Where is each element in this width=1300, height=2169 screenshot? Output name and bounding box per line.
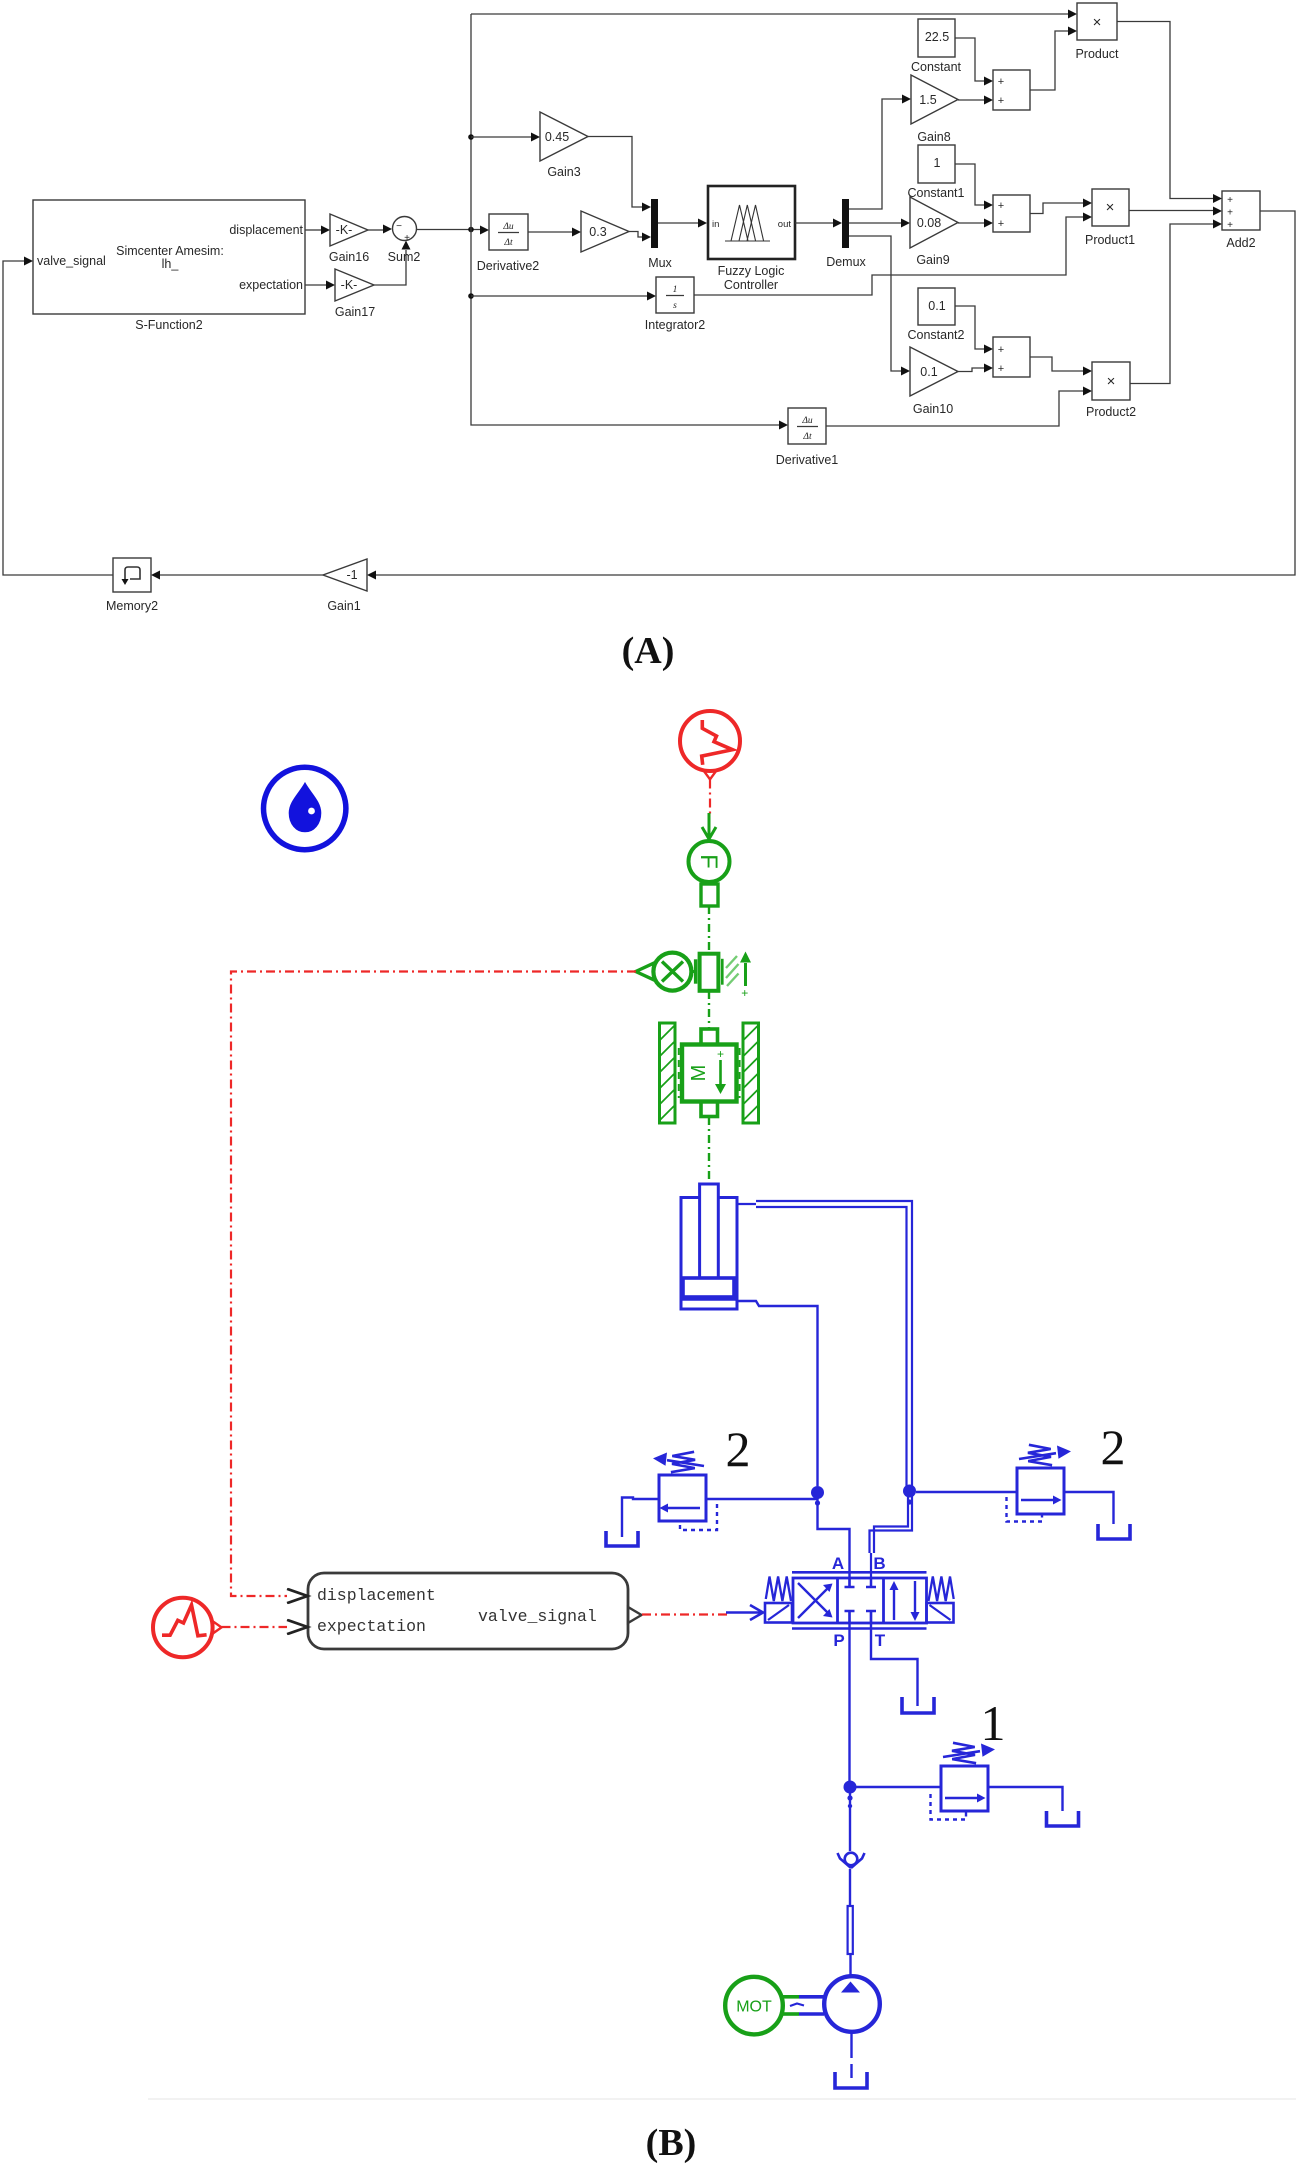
pipe left relief valve to junction A bbox=[706, 1498, 818, 1500]
wire Gain1 to Memory2 bbox=[151, 571, 323, 580]
junction node B side bbox=[903, 1485, 916, 1505]
relief valve 2 left bbox=[622, 1452, 717, 1537]
svg-text:+: + bbox=[1227, 220, 1233, 231]
svg-text:A: A bbox=[832, 1554, 844, 1573]
gain Gain9 bbox=[910, 197, 958, 267]
svg-text:-K-: -K- bbox=[336, 223, 353, 237]
svg-text:Simcenter Amesim:: Simcenter Amesim: bbox=[116, 244, 224, 258]
svg-text:+: + bbox=[998, 95, 1004, 107]
hydraulic pipe element bbox=[848, 1906, 853, 1954]
svg-text:Δu: Δu bbox=[801, 416, 813, 426]
wire Gain17 to Sum2 bbox=[374, 241, 411, 286]
svg-text:valve_signal: valve_signal bbox=[37, 254, 106, 268]
faint separator line bbox=[148, 2098, 1296, 2100]
svg-text:(A): (A) bbox=[622, 630, 675, 672]
blue arrow into solenoid bbox=[726, 1605, 763, 1620]
green mech line sensor to mass bbox=[708, 991, 710, 1028]
wire Gain10 to sum bbox=[958, 364, 993, 373]
svg-text:Product: Product bbox=[1075, 47, 1119, 61]
pipe junction to check valve bbox=[849, 1787, 851, 1851]
oil drop icon bbox=[264, 767, 346, 849]
right solenoid bbox=[927, 1603, 954, 1623]
svg-text:-1: -1 bbox=[346, 568, 357, 582]
wire Gain3 to Mux input1 bbox=[588, 137, 651, 212]
svg-text:0.45: 0.45 bbox=[545, 130, 569, 144]
wire trunk bottom to Derivative1 bbox=[471, 421, 788, 430]
svg-text:Demux: Demux bbox=[826, 255, 866, 269]
svg-text:+: + bbox=[1227, 208, 1233, 219]
svg-text:Δt: Δt bbox=[802, 432, 812, 442]
memory Memory2 bbox=[106, 558, 158, 613]
green mech line force to sensor bbox=[708, 906, 710, 953]
svg-text:Sum2: Sum2 bbox=[388, 250, 421, 264]
red line lower source to expectation input bbox=[222, 1626, 288, 1628]
svg-text:Constant1: Constant1 bbox=[908, 186, 965, 200]
svg-text:-K-: -K- bbox=[341, 278, 358, 292]
mass with friction walls bbox=[660, 1023, 759, 1123]
pipe T port to tank bbox=[871, 1611, 918, 1706]
gain Gain1 bbox=[323, 559, 367, 613]
svg-text:valve_signal: valve_signal bbox=[478, 1607, 597, 1626]
svg-text:+: + bbox=[741, 986, 748, 1000]
svg-text:Gain3: Gain3 bbox=[547, 165, 580, 179]
left cell crossed arrows bbox=[798, 1588, 828, 1618]
svg-text:1: 1 bbox=[981, 1695, 1006, 1751]
pipe junction B to valve port B (double line) bbox=[870, 1496, 913, 1587]
wire Constant1 to sum bbox=[955, 164, 993, 210]
svg-text:Gain1: Gain1 bbox=[327, 599, 360, 613]
pipe junction A to valve port A bbox=[818, 1497, 850, 1587]
svg-text:Derivative2: Derivative2 bbox=[477, 259, 540, 273]
gain Gain8 bbox=[911, 75, 958, 144]
sum Sum2 bbox=[388, 217, 421, 265]
wire trunk to Gain3 bbox=[471, 133, 540, 142]
svg-text:F: F bbox=[695, 854, 722, 869]
svg-text:+: + bbox=[998, 76, 1004, 88]
left solenoid bbox=[765, 1603, 792, 1623]
svg-text:s: s bbox=[673, 301, 677, 311]
svg-text:Δu: Δu bbox=[502, 222, 514, 232]
pipe junction to relief valve 1 bbox=[850, 1786, 941, 1788]
pipe junction B to relief valve 2 right bbox=[916, 1491, 1017, 1493]
check valve bbox=[838, 1853, 865, 1868]
wire trunk to Integrator2 bbox=[471, 292, 656, 301]
junction node A side bbox=[811, 1486, 824, 1506]
svg-text:×: × bbox=[1106, 199, 1115, 216]
block Fuzzy Logic Controller bbox=[708, 186, 795, 292]
S-Function2 block bbox=[33, 200, 305, 332]
wire Demux out2 to Gain9 bbox=[849, 219, 910, 228]
gain 0.3 bbox=[581, 211, 629, 252]
wire Derivative2 to 0.3 gain bbox=[528, 228, 581, 237]
wire Gain9 to sum bbox=[958, 219, 993, 228]
wire sum to Product2 input1 bbox=[1030, 357, 1092, 376]
svg-text:22.5: 22.5 bbox=[925, 30, 949, 44]
relief valve 1 bbox=[931, 1743, 1063, 1820]
relief valve 2 right bbox=[1007, 1445, 1114, 1524]
shaft motor to pump bbox=[783, 1997, 824, 2014]
wire sum to Product1 input1 bbox=[1030, 199, 1092, 214]
wire Gain8 to sum bbox=[958, 96, 993, 105]
svg-text:displacement: displacement bbox=[229, 223, 303, 237]
svg-text:out: out bbox=[778, 219, 792, 230]
junction node pump line bbox=[844, 1781, 857, 1809]
sum block middle bbox=[993, 195, 1030, 232]
svg-text:0.1: 0.1 bbox=[920, 365, 937, 379]
svg-text:+: + bbox=[998, 218, 1004, 230]
svg-text:B: B bbox=[873, 1554, 885, 1573]
svg-text:Memory2: Memory2 bbox=[106, 599, 158, 613]
svg-text:S-Function2: S-Function2 bbox=[135, 318, 202, 332]
wire Product2 to Add2 input3 bbox=[1130, 220, 1222, 384]
svg-text:1.5: 1.5 bbox=[919, 93, 936, 107]
red control line source to force bbox=[709, 780, 711, 815]
svg-text:expectation: expectation bbox=[239, 278, 303, 292]
signal source circle bottom left bbox=[153, 1598, 222, 1658]
demux Demux bbox=[826, 199, 866, 269]
svg-text:2: 2 bbox=[726, 1421, 751, 1477]
wire Integrator2 to Product1 input2 bbox=[694, 213, 1092, 296]
green signal arrow into force source bbox=[702, 813, 716, 839]
svg-text:(B): (B) bbox=[646, 2122, 697, 2164]
pipe check valve to hydraulic pipe bbox=[849, 1869, 851, 1906]
add Add2 bbox=[1222, 191, 1260, 250]
wire Demux out1 to Gain8 bbox=[849, 95, 911, 210]
svg-text:Controller: Controller bbox=[724, 278, 778, 292]
wire trunk vertical bbox=[468, 14, 474, 424]
svg-text:1: 1 bbox=[934, 156, 941, 170]
svg-text:Integrator2: Integrator2 bbox=[645, 318, 706, 332]
wire Sum2 output to trunk and Derivative2 bbox=[417, 226, 489, 235]
derivative Derivative1 bbox=[776, 408, 839, 467]
gain Gain10 bbox=[910, 347, 958, 416]
svg-text:T: T bbox=[875, 1631, 886, 1650]
motor MOT bbox=[725, 1977, 783, 2035]
signal source circle top bbox=[680, 711, 740, 779]
constant Constant 22.5 bbox=[911, 19, 962, 74]
svg-text:+: + bbox=[717, 1047, 724, 1061]
gain Gain3 bbox=[540, 112, 588, 179]
svg-text:M: M bbox=[688, 1065, 710, 1082]
svg-text:+: + bbox=[404, 233, 410, 244]
svg-text:lh_: lh_ bbox=[162, 257, 180, 271]
wire Mux to Fuzzy Logic Controller bbox=[658, 219, 707, 228]
svg-text:displacement: displacement bbox=[317, 1586, 436, 1605]
integrator Integrator2 bbox=[645, 277, 706, 332]
constant Constant2 bbox=[908, 288, 965, 342]
right cell straight arrows bbox=[893, 1587, 895, 1620]
wire Derivative1 to Product2 input2 bbox=[826, 387, 1092, 427]
wire Demux out3 to Gain10 bbox=[849, 236, 910, 376]
constant Constant1 bbox=[908, 145, 965, 200]
svg-text:1: 1 bbox=[673, 285, 678, 295]
green mech line mass to cylinder rod bbox=[708, 1117, 710, 1184]
sum block bottom bbox=[993, 337, 1030, 377]
left spring bbox=[766, 1577, 791, 1602]
svg-text:expectation: expectation bbox=[317, 1617, 426, 1636]
svg-text:×: × bbox=[1093, 14, 1102, 31]
wire expectation to Gain17 bbox=[305, 281, 335, 290]
controller block displacement/expectation bbox=[287, 1573, 642, 1649]
svg-text:Constant2: Constant2 bbox=[908, 328, 965, 342]
wire Constant to sum bbox=[955, 38, 993, 86]
svg-text:in: in bbox=[712, 219, 719, 230]
svg-text:+: + bbox=[998, 344, 1004, 356]
mux Mux bbox=[648, 199, 672, 270]
product Product1 bbox=[1085, 189, 1135, 247]
svg-text:Mux: Mux bbox=[648, 256, 672, 270]
svg-text:+: + bbox=[1227, 195, 1233, 206]
wire 0.3 gain to Mux input2 bbox=[629, 232, 651, 242]
svg-text:MOT: MOT bbox=[736, 1999, 772, 2016]
svg-text:Product1: Product1 bbox=[1085, 233, 1135, 247]
gain Gain16 bbox=[329, 214, 369, 264]
wire Product to Add2 input1 bbox=[1117, 22, 1222, 204]
red line sensor to displacement input bbox=[231, 972, 636, 1597]
wire Product1 to Add2 input2 bbox=[1129, 207, 1222, 216]
svg-text:Constant: Constant bbox=[911, 60, 962, 74]
wire displacement to Gain16 bbox=[305, 226, 330, 235]
wire Constant2 to sum bbox=[955, 306, 993, 354]
derivative Derivative2 bbox=[477, 214, 540, 273]
hydraulic cylinder bbox=[681, 1184, 737, 1309]
wire sum to Product input2 bbox=[1030, 27, 1077, 91]
tank left relief bbox=[606, 1531, 638, 1546]
velocity sensor with transducer bbox=[636, 952, 751, 1001]
svg-text:Fuzzy Logic: Fuzzy Logic bbox=[718, 264, 785, 278]
port labels A B P T bbox=[832, 1554, 886, 1650]
svg-text:Gain10: Gain10 bbox=[913, 402, 953, 416]
wire Add2 feedback to Gain1 bbox=[367, 211, 1295, 580]
wire Fuzzy Logic Controller to Demux bbox=[795, 219, 842, 228]
svg-text:P: P bbox=[833, 1631, 844, 1650]
tank T port bbox=[902, 1697, 934, 1713]
center cell blocked ports bbox=[845, 1578, 855, 1587]
pipe cylinder bottom port down to junction A bbox=[737, 1301, 818, 1486]
svg-text:0.08: 0.08 bbox=[917, 216, 941, 230]
svg-text:−: − bbox=[396, 221, 402, 232]
tank relief valve 1 bbox=[1047, 1811, 1079, 1826]
svg-text:×: × bbox=[1107, 373, 1116, 390]
pipe cylinder top port to junction B (double line) bbox=[737, 1201, 912, 1487]
svg-text:Product2: Product2 bbox=[1086, 405, 1136, 419]
svg-text:Gain8: Gain8 bbox=[917, 130, 950, 144]
svg-text:Δt: Δt bbox=[503, 238, 513, 248]
product Product bbox=[1075, 3, 1119, 61]
right spring bbox=[929, 1577, 954, 1602]
svg-text:2: 2 bbox=[1101, 1419, 1126, 1475]
pipe pump to tank bbox=[850, 2032, 852, 2078]
pipe P port down to pump junction bbox=[848, 1611, 850, 1787]
product Product2 bbox=[1086, 362, 1136, 419]
svg-text:0.3: 0.3 bbox=[589, 225, 606, 239]
svg-text:0.1: 0.1 bbox=[928, 299, 945, 313]
svg-text:Gain17: Gain17 bbox=[335, 305, 375, 319]
gain Gain17 bbox=[335, 269, 375, 319]
svg-text:Add2: Add2 bbox=[1226, 236, 1255, 250]
svg-text:+: + bbox=[998, 200, 1004, 212]
pipe to pump bbox=[849, 1954, 851, 1977]
pump bbox=[824, 1976, 880, 2032]
sum block top bbox=[993, 70, 1030, 110]
svg-text:Derivative1: Derivative1 bbox=[776, 453, 839, 467]
svg-text:+: + bbox=[998, 363, 1004, 375]
wire Gain16 to Sum2 bbox=[368, 225, 392, 234]
wire trunk top to Product input1 bbox=[471, 10, 1077, 19]
svg-text:Gain9: Gain9 bbox=[916, 253, 949, 267]
red line valve_signal to valve solenoid bbox=[642, 1613, 728, 1615]
wire valve_signal feedback into S-Function2 bbox=[3, 257, 113, 576]
directional valve 4/3 bbox=[765, 1572, 954, 1628]
svg-text:Gain16: Gain16 bbox=[329, 250, 369, 264]
force source F bbox=[689, 841, 730, 906]
tank right relief bbox=[1098, 1524, 1130, 1539]
tank pump suction bbox=[835, 2072, 867, 2088]
